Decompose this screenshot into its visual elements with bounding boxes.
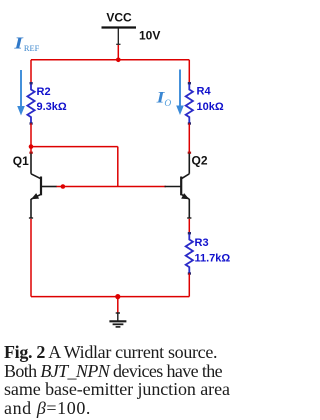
- resistor R4: [186, 82, 193, 125]
- value R3 11.7k: [195, 252, 231, 264]
- svg-text:9.3kΩ: 9.3kΩ: [37, 101, 67, 113]
- 10V value label: [139, 29, 160, 43]
- VCC stub lead (black): [117, 28, 119, 45]
- node collector/feedback junction: [29, 144, 34, 149]
- wire Q2 emitter to R3: [188, 219, 190, 234]
- figure caption: [4, 343, 244, 417]
- svg-text:R2: R2: [37, 86, 51, 98]
- wire feedback horizontal: [31, 146, 118, 148]
- svg-text:10V: 10V: [139, 29, 160, 43]
- transistor Q1 (mirrored NPN): [29, 154, 57, 219]
- svg-text:O: O: [164, 99, 171, 109]
- label Q2: [192, 154, 208, 168]
- current arrow IREF: [17, 70, 25, 116]
- label R3: [195, 237, 209, 249]
- wire VCC stub (red): [117, 45, 119, 60]
- node top rail junction: [116, 58, 121, 63]
- wire R3 to bottom rail: [188, 273, 190, 296]
- label R4: [197, 86, 212, 98]
- VCC label: [106, 11, 132, 25]
- svg-text:Q2: Q2: [192, 154, 208, 168]
- wire right branch top: [188, 60, 190, 84]
- wire R4 to Q2 collector: [188, 123, 191, 154]
- svg-text:Q1: Q1: [13, 154, 29, 168]
- node Q1 base junction: [61, 184, 66, 189]
- value R2 9.3k: [37, 101, 67, 113]
- svg-text:I: I: [13, 35, 24, 53]
- transistor Q2 (NPN): [165, 154, 192, 219]
- resistor R3: [186, 232, 193, 275]
- svg-text:10kΩ: 10kΩ: [197, 101, 224, 113]
- label IO: [155, 89, 171, 110]
- value R4 10k: [197, 101, 224, 113]
- svg-text:11.7kΩ: 11.7kΩ: [195, 252, 231, 264]
- ground: [109, 314, 126, 327]
- resistor R2: [27, 82, 34, 125]
- svg-text:VCC: VCC: [106, 11, 132, 25]
- wire left branch top: [30, 60, 32, 84]
- label R2: [37, 86, 51, 98]
- svg-text:R3: R3: [195, 237, 209, 249]
- wire Q1 emitter down: [30, 219, 32, 297]
- VCC pin tick: [116, 43, 120, 45]
- wire bottom rail: [31, 296, 189, 298]
- power VCC bar: [102, 26, 137, 28]
- wire feedback vertical: [117, 147, 119, 187]
- ground pin tick: [116, 312, 120, 314]
- svg-text:R4: R4: [197, 86, 212, 98]
- wire R2 to Q1 collector: [29, 123, 32, 154]
- wire ground stub (red): [117, 297, 119, 314]
- current arrow IO: [176, 70, 184, 116]
- label IREF: [13, 35, 39, 53]
- label Q1: [13, 154, 29, 168]
- node ground junction: [115, 294, 120, 299]
- svg-text:REF: REF: [24, 44, 40, 53]
- wire base net: [56, 186, 166, 188]
- wire top rail: [31, 59, 189, 61]
